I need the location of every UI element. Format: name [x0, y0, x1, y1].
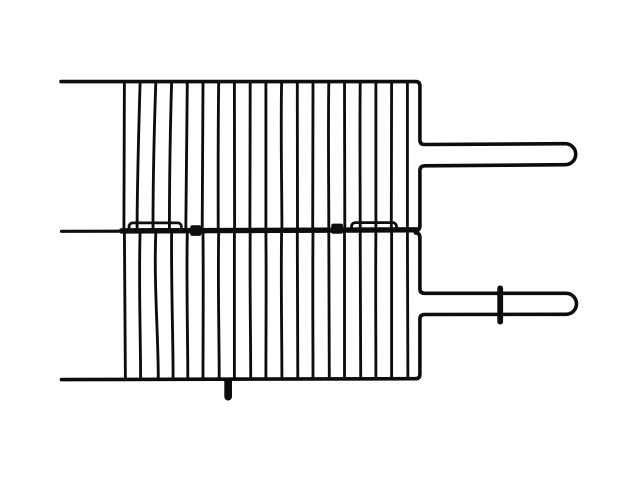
- slider ring: [497, 286, 503, 325]
- wire: [248, 83, 251, 230]
- wire: [359, 232, 362, 379]
- wire: [186, 83, 188, 230]
- wire: [280, 232, 283, 379]
- wire: [327, 232, 330, 379]
- wire: [359, 83, 362, 230]
- wire: [217, 232, 221, 379]
- wire: [327, 83, 330, 230]
- wire: [374, 83, 377, 230]
- wire: [374, 232, 377, 379]
- wire: [311, 83, 314, 230]
- wire: [217, 83, 220, 230]
- wire: [169, 83, 171, 230]
- wire: [233, 83, 236, 230]
- wire: [280, 83, 284, 230]
- wire: [122, 83, 125, 230]
- wire: [172, 232, 174, 379]
- wire: [296, 83, 299, 230]
- wire: [140, 232, 141, 379]
- wire: [390, 232, 393, 379]
- top frame with handle: [61, 82, 576, 231]
- wire: [296, 232, 299, 379]
- wire: [390, 83, 393, 230]
- wire: [406, 83, 409, 230]
- wire: [249, 232, 252, 379]
- bottom frame with handle: [62, 233, 577, 380]
- wire: [155, 232, 158, 379]
- hinge rod: [122, 230, 418, 231]
- wire: [124, 232, 125, 379]
- wire: [311, 232, 314, 379]
- clip block left: [190, 225, 201, 236]
- clip loop right: [352, 223, 397, 231]
- wire: [233, 232, 236, 379]
- wire: [201, 83, 205, 230]
- wire: [343, 232, 346, 379]
- wire: [343, 83, 346, 230]
- wire: [153, 83, 156, 230]
- wire: [186, 232, 190, 379]
- middle wire: [62, 229, 419, 233]
- wire: [406, 232, 409, 379]
- bottom peg: [224, 379, 232, 401]
- wire: [137, 83, 140, 230]
- wire: [264, 232, 267, 379]
- clip block right: [331, 224, 343, 234]
- wire: [202, 232, 205, 379]
- wire: [264, 83, 267, 230]
- clip loop left: [129, 223, 182, 231]
